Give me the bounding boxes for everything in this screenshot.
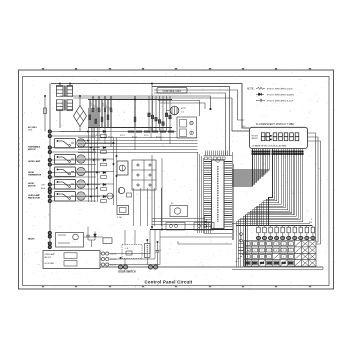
wire nest corner B [154,90,244,120]
svg-text:D-5: D-5 [181,112,184,114]
drawing frame inner border [23,77,330,286]
IC1 pins left side [204,162,212,227]
border tick marks [19,68,335,289]
IC1 ground bus [150,155,233,230]
svg-text:1: 1 [19,138,20,140]
svg-text:8: 8 [254,257,255,259]
relay RY9 micro box [56,233,84,248]
svg-text:8: 8 [290,257,291,259]
wire row 3 output [51,160,113,172]
comb to bus drops [93,128,170,150]
svg-text:8: 8 [290,244,291,246]
bridge rectifier D1 [74,95,87,131]
wire matrix collector [232,223,313,227]
wire matrix bottom drop [251,265,316,268]
display tube pins left group [253,149,270,159]
svg-text:RY-D3: RY-D3 [120,135,125,137]
relay RY4 [55,180,76,190]
wire bottom bus [100,266,323,268]
connector CN2 [48,146,51,154]
diode D3 [101,146,107,153]
junction dots [44,83,163,259]
door switch label [118,270,136,273]
buzzer BZ1 [170,203,188,217]
svg-text:5: 5 [19,160,20,162]
relay RY1 [55,139,76,149]
key matrix buttons [245,241,315,265]
wire vertical feed bundle [88,108,117,205]
svg-text:RY-D1: RY-D1 [96,135,101,137]
svg-text:MOTOR: MOTOR [28,149,36,151]
door switch S1 [118,265,127,269]
diode D4 [101,159,107,166]
svg-text:C-8: C-8 [125,248,128,250]
wire bottom double bus right [232,267,323,270]
svg-text:SELECT: SELECT [252,138,259,140]
display pin labels left [252,151,271,155]
svg-text:8: 8 [247,250,248,252]
diode D5 [101,171,107,178]
relay unit box RY10 [177,117,197,138]
transformer T1 [56,84,73,129]
component label row [128,131,174,133]
varistor ZNR1 [43,96,46,132]
left load labels [28,126,46,241]
wire right bottom links [160,237,244,254]
wire row 4 output [51,173,113,185]
transistor Q6 [104,193,113,199]
capacitor C20 [86,232,90,240]
svg-text:RY-D6: RY-D6 [156,136,161,138]
microcontroller IC1 [204,156,233,234]
note legend text [247,87,295,102]
control unit label box [157,88,187,93]
IC bottom elbows [152,216,211,233]
key matrix contact row [256,236,315,240]
svg-text:3: 3 [19,149,20,151]
connector CN1 [48,130,51,138]
relay RY3 [55,167,76,177]
svg-text:NOTE:: NOTE: [247,88,254,90]
key matrix grid [244,241,316,267]
svg-text:HOOD LAMP: HOOD LAMP [28,160,41,163]
svg-text:MOTOR: MOTOR [28,185,36,187]
connector CN4 [48,171,51,179]
fluorescent display tube label [256,123,294,126]
power supply filter capacitors [60,84,176,132]
key matrix bottom row labels [246,262,293,264]
display tube pins right group [273,149,303,159]
wire row 2 output [51,148,113,160]
svg-text:2: 2 [19,144,20,146]
IC top component row [205,157,226,160]
capacitor cell grid [132,160,156,190]
IC bottom components [166,223,214,231]
transistor Q4 [77,180,85,188]
wire fan grid bundle to IC [233,158,270,186]
wire nest corner C [154,93,226,156]
key matrix left wires [238,233,244,254]
wire row 5 output [51,185,113,197]
connector CN-A70 dashed box [122,230,142,265]
connector CN6 [48,195,51,203]
wire connector to center [109,230,160,265]
IC1 pins right side [224,162,232,227]
svg-text:IF NOT SPECIFIED 0.1 µF: IF NOT SPECIFIED 0.1 µF [267,100,294,102]
svg-text:8: 8 [283,250,284,252]
resistor network RA1 comb [88,96,172,128]
transistor Q2 [77,155,85,163]
wire relay drive bus rows [78,138,198,153]
relay RY5 [55,192,76,202]
svg-text:AN OFF: AN OFF [45,256,51,259]
svg-text:4: 4 [19,155,20,157]
left supply bus wire [49,84,51,250]
svg-text:FLUORESCENT DISPLAY TUBE: FLUORESCENT DISPLAY TUBE [256,123,294,126]
wire nest corner E [160,103,205,109]
display pin labels right [272,151,304,155]
key matrix resistor row [257,227,315,236]
connector CN7 micro [48,231,51,248]
component box B2 [103,238,112,244]
door switch S2 [148,265,157,269]
svg-text:RY-D4: RY-D4 [132,136,137,138]
diode D5 [94,232,97,241]
relay RY2 [55,155,76,165]
wire mid vertical drops [133,188,161,226]
wire top supply bus [51,84,250,129]
connector CN-T01 [100,252,116,266]
wire row 6 output [51,197,100,202]
diode D6 [101,183,107,190]
svg-text:Control Panel Circuit: Control Panel Circuit [145,279,193,284]
crystal X1 [117,206,129,220]
svg-text:IF NOT SPECIFIED 400WV: IF NOT SPECIFIED 400WV [267,94,295,96]
svg-text:X´TAL: X´TAL [117,216,122,219]
svg-text:8: 8 [247,244,248,246]
svg-text:50Hz: 50Hz [28,129,32,131]
wire micro to bus [84,227,103,248]
connector CN3 [48,158,51,166]
svg-text:H-8: H-8 [243,126,246,128]
fluorescent display tube V1 [250,127,308,148]
transistor Q1 [77,139,85,147]
svg-text:RY-D2: RY-D2 [108,136,113,138]
svg-text:HOOD FAN: HOOD FAN [45,262,55,265]
voltage regulator Q10 [166,106,187,115]
svg-text:8: 8 [254,244,255,246]
diode D2 [101,130,107,137]
transistor Q5 [77,192,85,200]
svg-text:LOW: LOW [41,185,45,187]
relay drive label [96,135,161,139]
wire second top bus [60,96,211,110]
wire far right verticals [308,133,321,244]
transistor Q3 [77,167,85,175]
svg-text:1/2 MAGE OR SP1 COOK DE-3C AO: 1/2 MAGE OR SP1 COOK DE-3C AO HEAT [252,144,287,147]
svg-text:OVEN LAMP: OVEN LAMP [45,253,56,256]
svg-text:DOOR SWITCH: DOOR SWITCH [118,270,136,273]
wire nest corner D [158,101,200,117]
wire nest corner A [152,87,230,156]
svg-text:6: 6 [19,166,20,168]
diode D7 [101,195,107,202]
connector CN5 [48,183,51,194]
transistor Q7 [118,187,131,197]
svg-text:THERMISTOR: THERMISTOR [28,174,42,176]
wire fan display to key matrix [235,158,302,267]
svg-text:8: 8 [254,250,255,252]
IC top comb [205,151,227,156]
svg-text:RY-D5: RY-D5 [144,135,149,137]
wire third top bus [63,97,232,99]
wire bus right of IC1 [232,152,234,240]
svg-text:8: 8 [247,257,248,259]
svg-text:M-8: M-8 [309,222,312,224]
relay RY7 coil box [117,161,128,175]
drawing frame outer border [19,70,334,289]
resistor network blobs [89,103,136,124]
capacitor C21 [156,242,162,267]
interlock switch box [43,251,100,269]
wire row 1 output [51,132,113,144]
varistor VR1 [145,240,151,265]
svg-text:IF NOT SPECIFIED 1/4 W: IF NOT SPECIFIED 1/4 W [267,88,294,90]
svg-text:8: 8 [290,250,291,252]
svg-text:FAN MOTOR: FAN MOTOR [28,196,41,199]
wire bus to display H-8 [232,98,250,131]
wire bus left of IC1 [198,152,204,233]
title: Control Panel Circuit [145,279,193,284]
